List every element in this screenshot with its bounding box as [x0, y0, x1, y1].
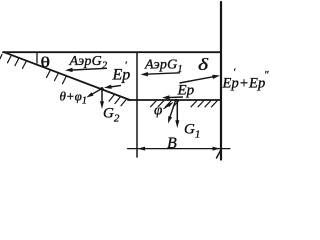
svg-text:Ep: Ep: [177, 83, 195, 99]
svg-text:″: ″: [264, 69, 269, 81]
junction point P2: [100, 87, 103, 90]
svg-text:Ep+Ep: Ep+Ep: [222, 76, 266, 92]
arrow G2 (weight, vertical down): [101, 89, 103, 103]
arrow G1 (weight, vertical down): [176, 101, 178, 122]
arrow E'p left (points left along slope): [110, 85, 121, 87]
dimension arrow right: [213, 147, 221, 151]
svg-text:θ+φ1: θ+φ1: [60, 89, 87, 107]
slope hatching group B: [47, 71, 67, 84]
ground hatching group 2: [151, 101, 179, 107]
vertical divider line at slope foot: [136, 52, 138, 157]
dimension arrow left: [138, 147, 146, 151]
retaining wall (vertical line): [220, 2, 222, 160]
svg-text:АэрG1: АэрG1: [144, 58, 183, 76]
svg-text:В: В: [167, 135, 177, 152]
svg-text:G2: G2: [103, 106, 120, 125]
svg-text:φ: φ: [154, 103, 162, 119]
ground hatching group 1: [109, 95, 126, 106]
arrow Ep right (points left): [168, 96, 183, 99]
arrow AэpG2 (seismic force, points left): [72, 68, 107, 70]
wall bottom tick: [217, 151, 221, 158]
svg-text:Ep: Ep: [112, 67, 131, 84]
ground hatching group 3: [191, 101, 217, 107]
arrow resultant at P2 (down-left, angle theta+phi1): [91, 89, 101, 95]
theta angle tick: [36, 52, 38, 63]
arrow resultant at P1 (down-left, angle phi): [170, 101, 176, 118]
junction point P1: [175, 99, 178, 102]
slope hatching group A: [0, 54, 26, 68]
arrow phi leader: [164, 105, 170, 109]
lower ground surface line: [128, 99, 221, 101]
svg-text:АэрG2: АэрG2: [69, 54, 108, 72]
svg-text:G1: G1: [184, 122, 200, 141]
top horizontal reference line: [3, 51, 221, 53]
svg-text:δ: δ: [198, 55, 208, 74]
svg-text:θ: θ: [41, 55, 51, 71]
arrow delta (resultant toward wall): [180, 77, 215, 83]
dimension line B: [128, 148, 231, 150]
arrow AэpG1 (seismic force, points left): [146, 73, 180, 74]
slope surface line: [4, 52, 130, 100]
